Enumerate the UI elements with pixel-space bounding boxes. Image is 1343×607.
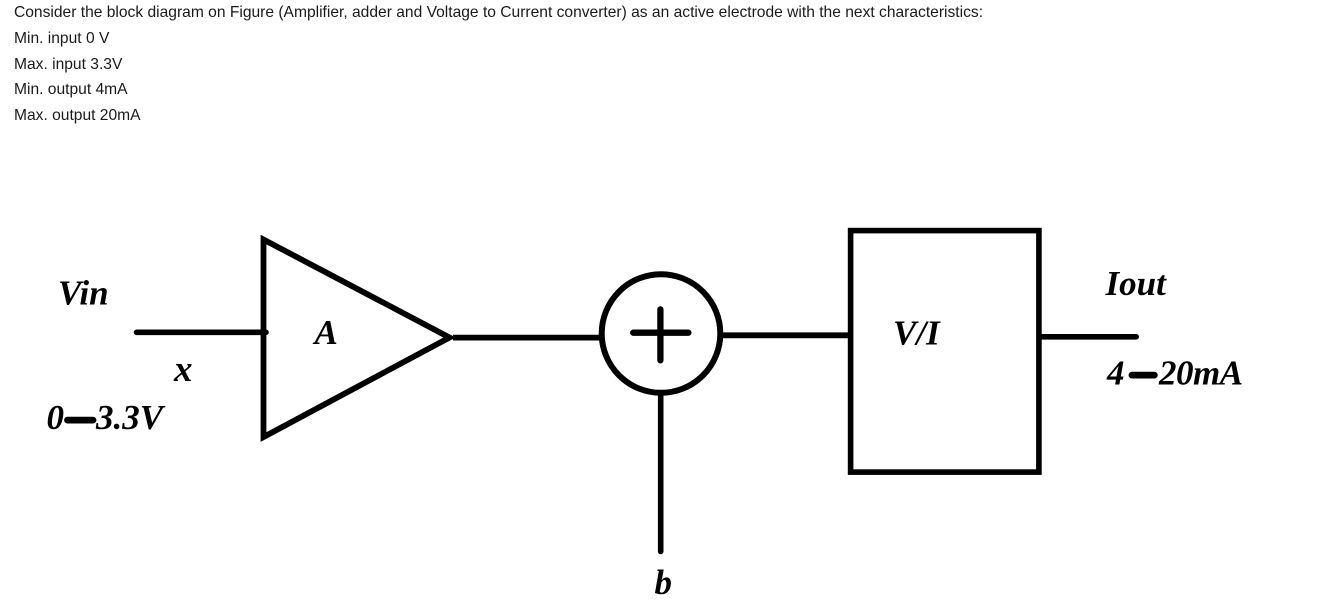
svg-text:b: b	[655, 563, 673, 602]
svg-text:A: A	[313, 313, 338, 352]
svg-text:0: 0	[47, 398, 65, 437]
adder summing junction circle	[602, 274, 721, 393]
node 4-20mA range label : dash	[1132, 372, 1154, 379]
wire adder to V/I block	[723, 332, 851, 338]
header text block	[14, 0, 983, 129]
amplifier A (triangle)	[264, 240, 450, 438]
svg-text:20mA: 20mA	[1158, 353, 1243, 392]
adder plus sign horizontal	[633, 330, 688, 336]
node 0-3.3V range label : dash	[68, 417, 94, 424]
wire output Iout	[1041, 334, 1136, 340]
svg-text:4: 4	[1106, 353, 1125, 392]
svg-text:3.3V: 3.3V	[95, 398, 166, 437]
adder plus sign vertical	[657, 309, 663, 360]
wire adder bottom input b	[658, 393, 664, 552]
svg-text:V/I: V/I	[893, 314, 941, 353]
wire input Vin to amplifier	[137, 329, 267, 335]
wire amplifier to adder	[453, 335, 601, 341]
block V/I voltage-to-current converter (rectangle)	[851, 231, 1039, 473]
svg-text:Vin: Vin	[58, 274, 109, 313]
svg-text:x: x	[173, 349, 193, 390]
svg-text:Iout: Iout	[1105, 264, 1168, 303]
